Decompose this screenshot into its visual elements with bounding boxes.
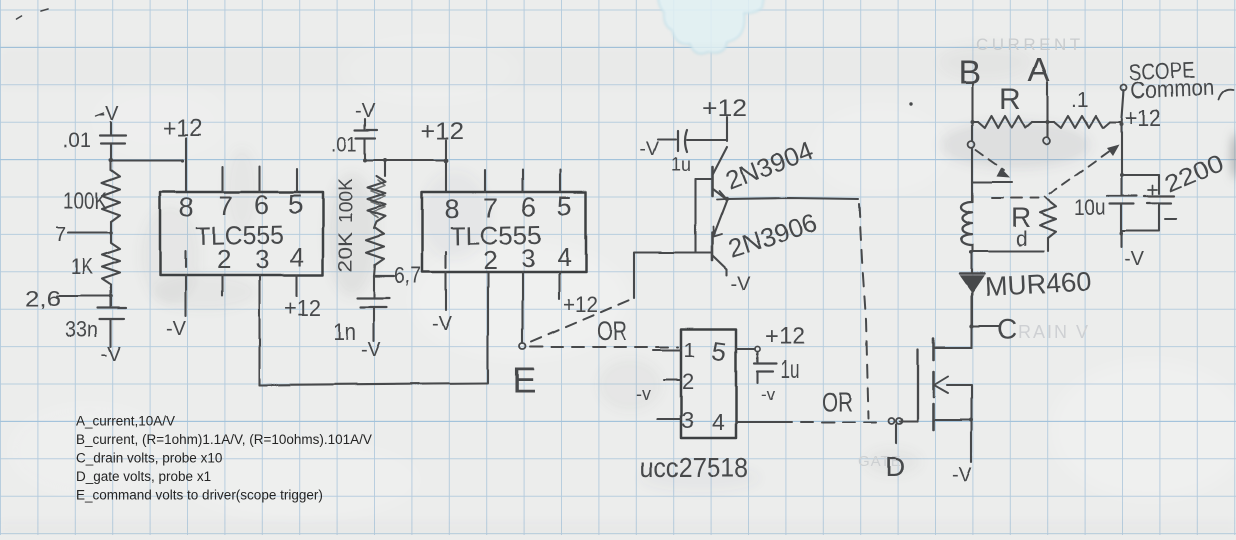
svg-text:3: 3 [521, 243, 535, 273]
svg-text:C_drain volts, probe x10: C_drain volts, probe x10 [76, 451, 222, 466]
svg-text:.01: .01 [62, 129, 91, 152]
svg-text:5: 5 [557, 191, 572, 221]
svg-text:2: 2 [682, 369, 694, 394]
svg-text:+12: +12 [1125, 105, 1161, 132]
svg-text:6,7: 6,7 [394, 262, 421, 288]
svg-text:1n: 1n [333, 319, 356, 346]
svg-text:-V: -V [432, 313, 453, 335]
svg-text:RAIN V: RAIN V [1018, 322, 1090, 342]
svg-text:+12: +12 [563, 292, 598, 317]
svg-text:E: E [512, 360, 536, 401]
svg-text:2: 2 [483, 245, 497, 275]
svg-text:1: 1 [684, 339, 696, 362]
svg-text:4: 4 [712, 409, 725, 435]
svg-text:7: 7 [55, 224, 66, 246]
svg-text:D: D [885, 451, 905, 482]
svg-text:20K: 20K [336, 232, 357, 272]
svg-text:7: 7 [218, 191, 233, 221]
svg-text:+12: +12 [163, 115, 202, 142]
svg-text:8: 8 [179, 192, 194, 222]
svg-text:B: B [958, 54, 981, 92]
svg-text:-V: -V [1124, 248, 1145, 270]
svg-text:7: 7 [483, 193, 498, 223]
svg-text:TLC555: TLC555 [196, 219, 285, 251]
svg-text:-V: -V [952, 464, 973, 486]
svg-text:E_command volts to driver(scop: E_command volts to driver(scope trigger) [76, 488, 323, 503]
svg-text:+12: +12 [765, 323, 805, 350]
svg-text:1K: 1K [71, 254, 93, 279]
svg-text:B_current, (R=1ohm)1.1A/V, (R=: B_current, (R=1ohm)1.1A/V, (R=10ohms).10… [76, 432, 372, 447]
svg-text:ucc27518: ucc27518 [640, 452, 748, 483]
svg-text:A_current,10A/V: A_current,10A/V [76, 414, 175, 429]
svg-text:6: 6 [254, 190, 269, 220]
svg-text:Common: Common [1130, 74, 1214, 103]
svg-text:4: 4 [557, 242, 571, 272]
svg-text:33n: 33n [65, 317, 98, 342]
svg-text:R: R [999, 83, 1021, 116]
svg-text:6: 6 [521, 192, 536, 222]
svg-text:C: C [997, 313, 1017, 344]
svg-text:8: 8 [444, 194, 459, 224]
svg-text:-V: -V [166, 318, 187, 340]
svg-text:10u: 10u [1074, 195, 1106, 220]
svg-text:-V: -V [731, 273, 752, 295]
svg-text:100K: 100K [63, 188, 107, 215]
svg-text:-V: -V [101, 344, 122, 366]
svg-text:d: d [1016, 228, 1028, 251]
svg-text:-V: -V [640, 139, 659, 160]
svg-text:5: 5 [288, 189, 303, 219]
svg-text:.1: .1 [1071, 89, 1089, 112]
svg-text:3: 3 [255, 244, 269, 274]
svg-text:100K: 100K [336, 178, 357, 223]
svg-text:+12: +12 [420, 118, 464, 145]
svg-text:1u: 1u [780, 356, 799, 384]
svg-text:4: 4 [290, 242, 304, 272]
svg-text:-V: -V [361, 339, 382, 361]
svg-text:2: 2 [217, 244, 231, 274]
svg-text:+12: +12 [702, 95, 747, 122]
svg-text:D_gate volts, probe x1: D_gate volts, probe x1 [76, 469, 211, 484]
svg-text:3: 3 [681, 407, 694, 433]
svg-text:2,6: 2,6 [25, 286, 61, 311]
svg-text:MUR460: MUR460 [984, 266, 1092, 302]
svg-text:-v: -v [761, 385, 776, 404]
svg-text:-v: -v [636, 384, 651, 404]
svg-text:+12: +12 [284, 295, 321, 321]
svg-text:OR: OR [597, 316, 627, 346]
svg-text:.01: .01 [331, 133, 357, 156]
svg-text:OR: OR [822, 387, 853, 417]
svg-text:1u: 1u [671, 155, 691, 176]
